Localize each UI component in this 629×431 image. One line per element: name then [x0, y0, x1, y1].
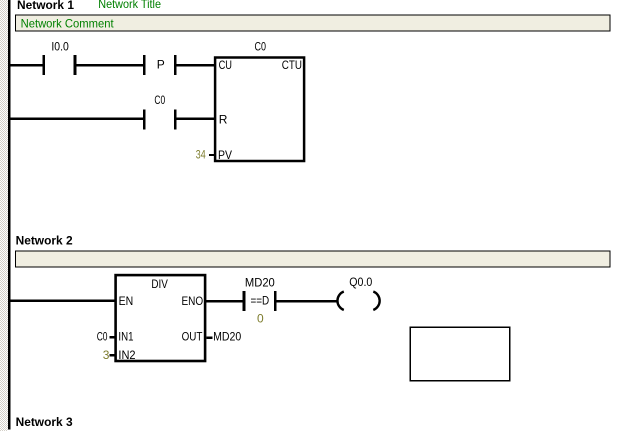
contact I0.0 — [42, 39, 76, 74]
wire rail to contact I0.0 — [10, 64, 43, 67]
svg-text:MD20: MD20 — [213, 330, 241, 344]
svg-text:OUT: OUT — [182, 329, 203, 343]
svg-text:DIV: DIV — [151, 277, 168, 291]
svg-text:==D: ==D — [251, 294, 270, 308]
constant 34 on PV pin — [196, 148, 216, 162]
divide box U2 DIV — [116, 275, 206, 362]
svg-text:EN: EN — [119, 294, 134, 308]
svg-text:MD20: MD20 — [245, 275, 275, 289]
empty selection rectangle — [410, 327, 509, 380]
svg-text:R: R — [219, 112, 228, 126]
svg-text:I0.0: I0.0 — [51, 39, 69, 53]
svg-text:Network Comment: Network Comment — [21, 17, 115, 31]
output coil Q0.0 — [337, 275, 379, 310]
svg-text:3: 3 — [103, 348, 110, 362]
operand MD20 on OUT pin — [206, 330, 241, 344]
svg-text:PV: PV — [218, 148, 232, 162]
svg-text:ENO: ENO — [182, 294, 204, 308]
compare contact ==D MD20 — [243, 275, 277, 325]
left margin dither strip — [0, 0, 8, 431]
svg-text:IN2: IN2 — [118, 348, 135, 362]
wire ENO to compare contact — [206, 300, 243, 303]
svg-text:IN1: IN1 — [118, 330, 133, 344]
svg-text:C0: C0 — [255, 39, 267, 53]
wire I0.0 to P contact — [76, 64, 142, 67]
svg-text:CTU: CTU — [282, 58, 302, 72]
svg-text:Network 3: Network 3 — [16, 415, 73, 429]
positive edge contact P — [143, 55, 177, 75]
constant 3 on IN2 pin — [103, 348, 115, 362]
svg-text:0: 0 — [257, 312, 264, 326]
svg-text:34: 34 — [196, 148, 206, 162]
svg-text:P: P — [157, 57, 165, 71]
network 2 comment box — [16, 251, 611, 267]
svg-text:C0: C0 — [97, 330, 108, 344]
svg-text:CU: CU — [219, 58, 232, 72]
operand C0 on IN1 pin — [97, 330, 116, 344]
wire rail to EN pin — [10, 300, 115, 303]
wire C0 contact to R pin — [177, 118, 215, 121]
wire rail to contact C0 — [10, 118, 143, 121]
wire compare contact to coil — [277, 300, 337, 303]
svg-text:Network 2: Network 2 — [16, 234, 73, 248]
left power rail (continuous) — [8, 0, 11, 430]
svg-text:Network Title: Network Title — [98, 0, 161, 11]
wire P contact to CU pin — [177, 64, 215, 67]
contact C0 — [143, 93, 177, 129]
svg-text:C0: C0 — [154, 93, 165, 107]
svg-text:Network 1: Network 1 — [17, 0, 74, 12]
counter box U1 CTU — [215, 39, 304, 162]
network 1 comment box — [16, 15, 611, 31]
svg-text:Q0.0: Q0.0 — [349, 275, 372, 289]
